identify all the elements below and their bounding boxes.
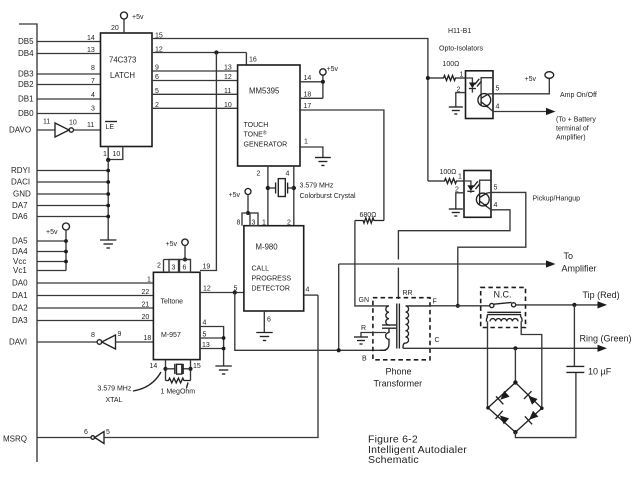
svg-text:+5v: +5v bbox=[166, 241, 178, 248]
wire DB1 to latch pin 4 bbox=[37, 98, 101, 100]
wire DB2 to latch pin 7 bbox=[37, 84, 101, 86]
svg-text:4: 4 bbox=[91, 92, 95, 99]
wire DA1 to M-957 pin 22 bbox=[37, 295, 153, 297]
junction pin12 drop bbox=[233, 290, 237, 294]
svg-text:3.579 MHz: 3.579 MHz bbox=[300, 183, 334, 190]
svg-text:+5v: +5v bbox=[46, 229, 58, 236]
wire latch pin 9 to MM pin 13 bbox=[152, 70, 238, 72]
wire M-980 pin 4 to MSRQ riser bbox=[304, 294, 318, 296]
wire DB0 to latch pin 3 bbox=[37, 113, 101, 115]
svg-text:DB0: DB0 bbox=[18, 109, 34, 118]
svg-text:Transformer: Transformer bbox=[374, 379, 423, 389]
svg-text:2: 2 bbox=[457, 87, 461, 94]
wire RR below amplifier line bbox=[397, 268, 399, 300]
svg-text:Amplifier): Amplifier) bbox=[556, 135, 586, 142]
svg-text:3: 3 bbox=[91, 106, 95, 113]
wire relay coil right to bridge bbox=[521, 321, 542, 408]
svg-text:4: 4 bbox=[306, 287, 310, 294]
svg-text:Vc1: Vc1 bbox=[13, 266, 27, 275]
svg-text:2: 2 bbox=[157, 263, 161, 270]
svg-text:10: 10 bbox=[113, 151, 121, 158]
inverter U3 (DAVI) bbox=[97, 340, 102, 345]
svg-text:4: 4 bbox=[496, 104, 500, 111]
resistor R4 1 MegOhm bbox=[166, 378, 191, 383]
wire DB5 to latch pin 14 bbox=[37, 41, 101, 43]
wire GND bbox=[37, 193, 108, 195]
svg-text:LATCH: LATCH bbox=[110, 71, 135, 80]
wire Tip line to arrow bbox=[516, 304, 604, 306]
svg-text:1: 1 bbox=[460, 72, 464, 79]
relay K1 dashed box bbox=[481, 287, 526, 327]
svg-text:DAVI: DAVI bbox=[9, 338, 27, 347]
svg-text:DB2: DB2 bbox=[18, 80, 34, 89]
ground (M-980 pin 6) bbox=[256, 332, 272, 334]
svg-text:16: 16 bbox=[249, 57, 257, 64]
svg-text:DACI: DACI bbox=[11, 178, 30, 187]
M-957 top pin stubs 2 3 6 bbox=[164, 259, 191, 261]
svg-text:18: 18 bbox=[144, 335, 152, 342]
svg-text:DA7: DA7 bbox=[12, 201, 28, 210]
svg-text:15: 15 bbox=[193, 363, 201, 370]
opto1 pin 5 to +5v bbox=[489, 78, 550, 94]
wire inverter out to latch pin 11 bbox=[74, 129, 101, 131]
wire RDYI bbox=[37, 170, 108, 172]
latch pins 1 and 10 bottom stubs bbox=[107, 147, 109, 160]
wire Vcc bbox=[37, 261, 66, 263]
svg-text:terminal of: terminal of bbox=[556, 126, 589, 133]
wire Tip line from F bbox=[430, 305, 490, 307]
svg-text:17: 17 bbox=[304, 103, 312, 110]
svg-text:14: 14 bbox=[150, 363, 158, 370]
svg-text:21: 21 bbox=[142, 302, 150, 309]
ground (transformer R) bbox=[354, 336, 368, 338]
svg-text:Pickup/Hangup: Pickup/Hangup bbox=[533, 196, 581, 203]
wire DAVI to inverter bbox=[37, 341, 97, 343]
bus: left data bus vertical bbox=[19, 24, 37, 462]
svg-text:N.C.: N.C. bbox=[494, 290, 512, 300]
wire Ring line from C bbox=[403, 347, 604, 349]
capacitor C2 10uF bbox=[566, 365, 584, 367]
opto2 pin 4 wire to transformer RR bbox=[398, 207, 510, 260]
svg-text:1: 1 bbox=[262, 220, 266, 227]
crystal Y1 colorburst bbox=[266, 186, 270, 190]
junction M-957 pin19 riser bbox=[214, 50, 218, 54]
ground (M-957 pins 4/5/13) bbox=[215, 365, 231, 367]
svg-text:Amp On/Off: Amp On/Off bbox=[560, 92, 597, 99]
dialer U6 Teltone M-957 bbox=[153, 272, 200, 359]
primary lower loop to B bbox=[380, 328, 389, 350]
opto2 pin 2 ground bbox=[456, 193, 464, 209]
wire MSRQ line to M-980 pin 4 riser bbox=[104, 295, 318, 437]
MM pin 1 ground stub bbox=[300, 147, 323, 158]
power +5v for M-957 pins 2/3/6 bbox=[182, 239, 188, 245]
diode D2 (top-right) bbox=[524, 391, 539, 406]
svg-text:11: 11 bbox=[43, 119, 50, 126]
svg-text:DA3: DA3 bbox=[12, 316, 28, 325]
power +5v for MM pins 14/18 bbox=[322, 75, 324, 98]
wire DA2 to M-957 pin 21 bbox=[37, 307, 153, 309]
svg-text:Opto-Isolators: Opto-Isolators bbox=[439, 46, 483, 53]
svg-text:M-980: M-980 bbox=[256, 243, 279, 252]
svg-text:100Ω: 100Ω bbox=[440, 169, 457, 176]
transformer core bbox=[396, 304, 398, 349]
wire inverter to M-957 pin 18 bbox=[116, 341, 154, 343]
svg-text:13: 13 bbox=[202, 342, 210, 349]
svg-text:DB1: DB1 bbox=[18, 95, 34, 104]
wire Vc1 bbox=[37, 270, 66, 272]
wire DA4 bbox=[37, 251, 66, 253]
svg-text:DB5: DB5 bbox=[18, 37, 34, 46]
svg-text:DB4: DB4 bbox=[18, 49, 34, 58]
svg-text:DA1: DA1 bbox=[12, 291, 28, 300]
svg-text:8: 8 bbox=[91, 332, 95, 339]
svg-text:12: 12 bbox=[203, 286, 211, 293]
svg-text:(To + Battery: (To + Battery bbox=[556, 117, 596, 124]
svg-text:4: 4 bbox=[203, 320, 207, 327]
svg-text:Phone: Phone bbox=[386, 367, 412, 377]
opto-isolator U8 H11-B1 (Amp On/Off) bbox=[466, 71, 494, 119]
wire latch pin 6 to MM pin 12 bbox=[152, 80, 238, 82]
svg-text:20: 20 bbox=[111, 25, 119, 32]
touch tone generator U5 MM5395 bbox=[238, 65, 300, 166]
diode D1 (top-left) bbox=[496, 390, 511, 405]
wire MM5395 pin 16 drop bbox=[245, 53, 247, 66]
svg-text:11: 11 bbox=[87, 122, 94, 129]
svg-text:Teltone: Teltone bbox=[161, 299, 184, 306]
wire DA3 to M-957 pin 20 bbox=[37, 320, 153, 322]
svg-text:5: 5 bbox=[494, 185, 498, 192]
svg-text:XTAL: XTAL bbox=[106, 397, 123, 404]
svg-text:2: 2 bbox=[287, 220, 291, 227]
svg-text:2: 2 bbox=[257, 171, 261, 178]
svg-text:10 µF: 10 µF bbox=[588, 367, 612, 377]
wire capacitor to Tip junction bbox=[573, 305, 575, 367]
svg-text:+5v: +5v bbox=[327, 66, 339, 73]
svg-text:+5v: +5v bbox=[525, 76, 537, 83]
latch U1 74C373 bbox=[101, 33, 153, 147]
svg-text:8: 8 bbox=[237, 220, 241, 227]
wire +5v down across DA5 DA4 Vcc to Vc1 bbox=[65, 230, 67, 271]
latch LE pin label with overline bbox=[105, 121, 117, 123]
wire DACI bbox=[37, 181, 108, 183]
ground (latch common) bbox=[100, 239, 116, 241]
opto2 internal LED bbox=[464, 181, 471, 185]
power +5v (amp) bbox=[545, 72, 554, 79]
svg-text:3: 3 bbox=[252, 220, 256, 227]
svg-text:Schematic: Schematic bbox=[368, 454, 419, 466]
svg-text:+5v: +5v bbox=[132, 14, 144, 21]
wire 680 ohm down to transformer GN bbox=[355, 221, 387, 306]
svg-text:3.579 MHz: 3.579 MHz bbox=[98, 386, 132, 393]
wire latch pin 2 to MM pin 10 bbox=[152, 107, 238, 109]
svg-text:B: B bbox=[362, 356, 367, 363]
svg-text:M-957: M-957 bbox=[161, 332, 181, 339]
M-957 pins 4 5 13 to ground bbox=[200, 327, 224, 367]
svg-text:H11-B1: H11-B1 bbox=[448, 28, 471, 35]
power +5v for M-980 pins 8/3 bbox=[245, 189, 251, 195]
inverter U2 (DAVO) bbox=[55, 123, 69, 137]
svg-text:GND: GND bbox=[13, 190, 31, 199]
relay switch contacts bbox=[490, 303, 494, 307]
svg-text:TOUCH: TOUCH bbox=[244, 122, 269, 129]
M-980 pin 6 ground bbox=[263, 311, 265, 333]
svg-text:12: 12 bbox=[224, 74, 232, 81]
wire DB3 to latch pin 8 bbox=[37, 73, 101, 75]
svg-text:11: 11 bbox=[224, 88, 231, 95]
M-957 pins 14 15 bottom bbox=[165, 360, 167, 381]
svg-text:14: 14 bbox=[304, 75, 312, 82]
bridge rectifier D1-D4 bbox=[488, 383, 542, 433]
wire pin1/10 down through handshake lines bbox=[107, 160, 109, 240]
svg-text:6: 6 bbox=[267, 317, 271, 324]
callout 3.579 MHz XTAL bbox=[133, 372, 161, 391]
wire relay coil left to bridge bbox=[487, 321, 489, 408]
svg-text:Ring (Green): Ring (Green) bbox=[580, 334, 632, 344]
svg-text:Colorburst Crystal: Colorburst Crystal bbox=[300, 193, 356, 200]
svg-text:C: C bbox=[435, 337, 440, 344]
svg-text:22: 22 bbox=[142, 289, 150, 296]
svg-text:2: 2 bbox=[455, 187, 459, 194]
capacitor C1 (primary) bbox=[382, 324, 396, 326]
opto1 phototransistor Q1 bbox=[478, 94, 491, 107]
latch pin 20 +5v bbox=[123, 19, 125, 33]
svg-text:4: 4 bbox=[494, 202, 498, 209]
wire riser to M-957 pin 19 bbox=[200, 53, 216, 271]
svg-text:5: 5 bbox=[496, 86, 500, 93]
svg-text:1: 1 bbox=[458, 174, 462, 181]
svg-text:13: 13 bbox=[87, 47, 95, 54]
svg-text:GN: GN bbox=[359, 297, 370, 304]
wire DA7 bbox=[37, 205, 108, 207]
svg-text:PROGRESS: PROGRESS bbox=[252, 276, 292, 283]
opto1 internal LED bbox=[466, 78, 473, 83]
svg-text:GENERATOR: GENERATOR bbox=[244, 142, 288, 149]
opto1 pin 4 output arrow bbox=[489, 108, 547, 112]
svg-text:19: 19 bbox=[203, 264, 211, 271]
MM pin 4 drop to M-980 pin 2 bbox=[293, 166, 295, 226]
svg-text:1: 1 bbox=[304, 139, 308, 146]
svg-text:DB3: DB3 bbox=[18, 70, 34, 79]
svg-text:DA4: DA4 bbox=[12, 247, 28, 256]
opto-isolator U9 H11-B1 (Pickup/Hangup) bbox=[464, 171, 491, 218]
wire pin12 junction down to transformer B line bbox=[235, 293, 386, 351]
M-980 pin 8 stub bbox=[242, 213, 248, 226]
wire DA5 bbox=[37, 240, 66, 242]
svg-text:MSRQ: MSRQ bbox=[3, 435, 27, 444]
svg-text:1: 1 bbox=[147, 277, 151, 284]
svg-text:3: 3 bbox=[172, 265, 176, 272]
svg-text:RR: RR bbox=[403, 290, 413, 297]
svg-text:74C373: 74C373 bbox=[109, 56, 136, 65]
wire MSRQ to inverter bbox=[37, 437, 91, 439]
svg-text:6: 6 bbox=[84, 429, 88, 436]
svg-text:R: R bbox=[361, 325, 366, 332]
MM pin 14 wire bbox=[300, 81, 323, 83]
transformer T1 dashed box bbox=[373, 298, 430, 360]
svg-text:13: 13 bbox=[224, 65, 232, 72]
MM pin 18 wire bbox=[300, 97, 323, 99]
opto2 internal base lead bbox=[480, 180, 491, 194]
opto1 internal base lead bbox=[481, 78, 493, 96]
call progress detector U7 M-980 bbox=[244, 226, 304, 311]
svg-text:20: 20 bbox=[142, 314, 150, 321]
svg-text:DA0: DA0 bbox=[12, 279, 28, 288]
ground (opto1 pin2) bbox=[449, 106, 463, 108]
power +5v (DA5 group) bbox=[63, 223, 70, 230]
svg-text:6: 6 bbox=[183, 265, 187, 272]
junction opto1 tap bbox=[426, 76, 430, 80]
svg-text:DETECTOR: DETECTOR bbox=[252, 286, 290, 293]
svg-text:14: 14 bbox=[87, 35, 95, 42]
wire DA0 to M-957 pin 1 bbox=[37, 282, 153, 284]
wire latch pin 5 to MM pin 11 bbox=[152, 93, 238, 95]
svg-text:5: 5 bbox=[203, 332, 207, 339]
svg-text:7: 7 bbox=[91, 78, 95, 85]
svg-text:18: 18 bbox=[304, 92, 312, 99]
wire latch pin 12 to MM5395 pin 16 bbox=[152, 52, 246, 54]
wire bridge bottom to capacitor bbox=[515, 372, 576, 437]
wire M-957 pin 12 to M-980 pin 5 bbox=[200, 292, 244, 294]
svg-text:8: 8 bbox=[91, 65, 95, 72]
svg-text:+5v: +5v bbox=[229, 192, 241, 199]
wire latch pin 15 to opto feed riser bbox=[152, 39, 428, 182]
inverter U4 (MSRQ) bbox=[91, 436, 95, 440]
svg-text:5: 5 bbox=[106, 429, 110, 436]
svg-text:DA6: DA6 bbox=[12, 212, 28, 221]
crystal Y2 3.579 MHz bbox=[166, 368, 175, 370]
diode D3 (bottom-left) bbox=[496, 411, 511, 426]
MM pin 17 wire to 680 ohm bbox=[300, 110, 384, 221]
svg-text:F: F bbox=[433, 299, 437, 306]
svg-text:4: 4 bbox=[286, 171, 290, 178]
transformer secondary coil bbox=[403, 306, 430, 348]
svg-text:Vcc: Vcc bbox=[13, 257, 26, 266]
MM pin 2 drop to M-980 pin 1 bbox=[267, 166, 269, 226]
svg-text:680Ω: 680Ω bbox=[360, 212, 377, 219]
svg-text:RDYI: RDYI bbox=[11, 166, 30, 175]
opto1 pin 2 ground bbox=[456, 93, 466, 107]
svg-text:DAVO: DAVO bbox=[9, 126, 31, 135]
wire DB4 to latch pin 13 bbox=[37, 53, 101, 55]
svg-text:10: 10 bbox=[224, 102, 232, 109]
svg-text:LE: LE bbox=[106, 124, 115, 131]
diode D4 (bottom-right) bbox=[525, 410, 540, 425]
relay coil bbox=[487, 311, 521, 313]
svg-text:DA2: DA2 bbox=[12, 304, 28, 313]
wire To Amplifier bbox=[339, 264, 546, 350]
svg-text:100Ω: 100Ω bbox=[443, 61, 460, 68]
svg-text:10: 10 bbox=[69, 120, 77, 127]
opto2 phototransistor Q2 bbox=[476, 193, 489, 206]
wire ring to bridge top bbox=[514, 348, 516, 382]
wire DA6 bbox=[37, 216, 108, 218]
M-980 pin 3 stub box bbox=[250, 213, 258, 226]
svg-text:Tip (Red): Tip (Red) bbox=[583, 290, 620, 300]
wire DAVO to inverter bbox=[37, 129, 55, 131]
ground (MM pin 1) bbox=[315, 157, 331, 159]
svg-text:To: To bbox=[564, 251, 574, 261]
svg-text:DA5: DA5 bbox=[12, 237, 28, 246]
svg-text:9: 9 bbox=[118, 331, 122, 338]
svg-text:1 MegOhm: 1 MegOhm bbox=[161, 389, 196, 396]
opto2 pin 5 wire to Tip line bbox=[458, 192, 526, 305]
svg-text:Amplifier: Amplifier bbox=[562, 264, 597, 274]
svg-text:CALL: CALL bbox=[252, 266, 270, 273]
ground (opto2 pin2) bbox=[449, 208, 463, 210]
transformer primary coil bbox=[386, 306, 389, 325]
svg-text:1: 1 bbox=[103, 151, 107, 158]
svg-text:MM5395: MM5395 bbox=[249, 87, 280, 96]
tap wire R to ground bbox=[361, 333, 386, 338]
